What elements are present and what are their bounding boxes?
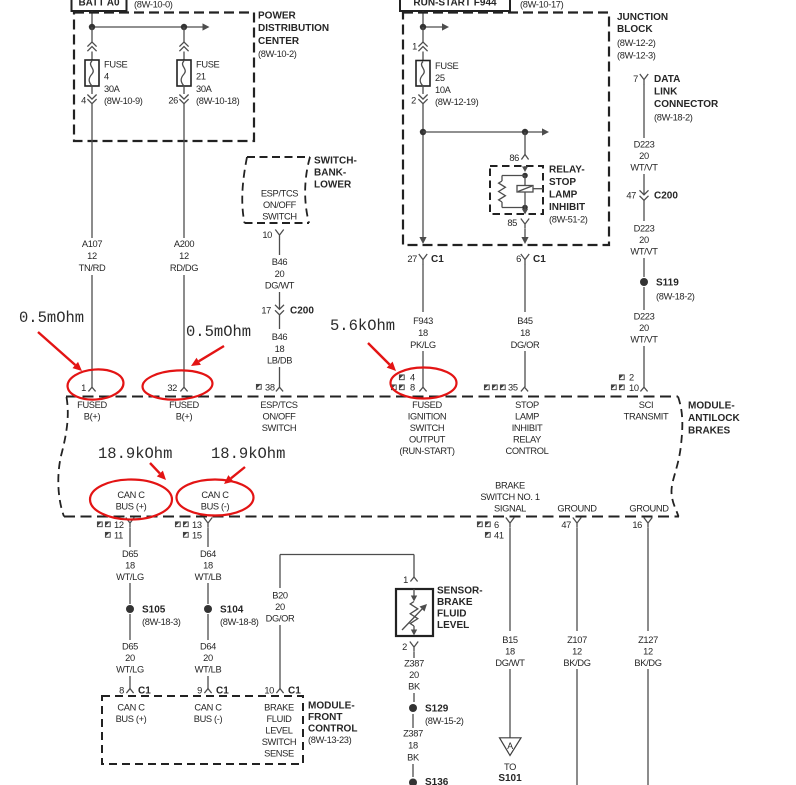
- svg-text:PK/LG: PK/LG: [410, 340, 436, 350]
- svg-text:GROUND: GROUND: [557, 504, 597, 514]
- svg-text:2: 2: [411, 96, 416, 106]
- svg-text:16: 16: [632, 520, 642, 530]
- svg-text:FUSE: FUSE: [196, 60, 220, 70]
- svg-text:6: 6: [494, 520, 499, 530]
- svg-text:C1: C1: [533, 254, 546, 265]
- svg-text:2: 2: [402, 642, 407, 652]
- svg-text:(8W-12-19): (8W-12-19): [435, 97, 479, 107]
- svg-text:7: 7: [633, 74, 638, 84]
- svg-text:35: 35: [508, 383, 518, 393]
- svg-text:17: 17: [261, 306, 271, 316]
- svg-text:47: 47: [626, 191, 636, 201]
- svg-text:6: 6: [516, 254, 521, 264]
- svg-text:WT/LB: WT/LB: [195, 572, 222, 582]
- svg-text:5.6kOhm: 5.6kOhm: [330, 317, 395, 335]
- svg-text:41: 41: [494, 531, 504, 541]
- svg-text:FLUID: FLUID: [266, 714, 292, 724]
- svg-text:D65: D65: [122, 642, 138, 652]
- svg-text:CONNECTOR: CONNECTOR: [654, 99, 719, 110]
- svg-text:WT/VT: WT/VT: [630, 335, 658, 345]
- svg-text:SENSE: SENSE: [264, 749, 294, 759]
- svg-text:12: 12: [179, 251, 189, 261]
- svg-text:(8W-12-3): (8W-12-3): [617, 50, 656, 60]
- svg-text:10: 10: [264, 686, 274, 696]
- svg-text:F943: F943: [413, 316, 433, 326]
- svg-text:C1: C1: [138, 686, 151, 697]
- svg-text:Z387: Z387: [404, 659, 424, 669]
- svg-text:BLOCK: BLOCK: [617, 24, 653, 35]
- svg-text:SWITCH-: SWITCH-: [314, 156, 357, 167]
- svg-text:Z387: Z387: [403, 729, 423, 739]
- svg-text:(8W-10-18): (8W-10-18): [196, 96, 240, 106]
- svg-text:SWITCH: SWITCH: [262, 737, 297, 747]
- svg-text:D64: D64: [200, 549, 216, 559]
- svg-text:ANTILOCK: ANTILOCK: [688, 413, 740, 424]
- svg-text:(8W-18-3): (8W-18-3): [142, 617, 181, 627]
- svg-text:30A: 30A: [104, 84, 121, 94]
- svg-text:12: 12: [643, 647, 653, 657]
- svg-text:15: 15: [192, 531, 202, 541]
- svg-text:12: 12: [87, 251, 97, 261]
- svg-text:11: 11: [114, 531, 123, 541]
- svg-text:CAN C: CAN C: [117, 703, 145, 713]
- svg-text:D223: D223: [634, 224, 655, 234]
- svg-text:BRAKES: BRAKES: [688, 425, 731, 436]
- svg-text:TN/RD: TN/RD: [79, 263, 106, 273]
- svg-text:(8W-18-2): (8W-18-2): [654, 113, 693, 123]
- svg-text:SWITCH: SWITCH: [410, 423, 445, 433]
- svg-text:FLUID: FLUID: [437, 609, 466, 620]
- svg-text:S105: S105: [142, 605, 166, 616]
- svg-text:C200: C200: [290, 306, 314, 317]
- svg-text:(8W-10-0): (8W-10-0): [134, 0, 173, 10]
- svg-text:ON/OFF: ON/OFF: [262, 412, 296, 422]
- svg-text:CAN C: CAN C: [194, 703, 222, 713]
- svg-text:BK: BK: [408, 682, 421, 692]
- svg-text:32: 32: [167, 383, 177, 393]
- svg-text:TO: TO: [504, 762, 516, 772]
- svg-text:SENSOR-: SENSOR-: [437, 586, 483, 597]
- svg-text:18: 18: [418, 328, 428, 338]
- svg-text:LAMP: LAMP: [515, 412, 539, 422]
- svg-text:C1: C1: [288, 686, 301, 697]
- svg-text:WT/LG: WT/LG: [116, 572, 144, 582]
- svg-text:BRAKE: BRAKE: [495, 481, 525, 491]
- svg-text:D223: D223: [634, 312, 655, 322]
- svg-text:CAN C: CAN C: [117, 490, 145, 500]
- svg-text:(8W-15-2): (8W-15-2): [425, 716, 464, 726]
- svg-text:SWITCH: SWITCH: [262, 423, 297, 433]
- svg-text:SWITCH: SWITCH: [262, 212, 297, 222]
- svg-text:SCI: SCI: [639, 400, 653, 410]
- svg-text:B46: B46: [272, 257, 288, 267]
- svg-text:20: 20: [639, 323, 649, 333]
- svg-text:86: 86: [509, 153, 519, 163]
- svg-text:47: 47: [561, 520, 571, 530]
- svg-text:20: 20: [125, 653, 135, 663]
- svg-text:(8W-13-23): (8W-13-23): [308, 735, 352, 745]
- svg-text:STOP: STOP: [515, 400, 539, 410]
- svg-text:JUNCTION: JUNCTION: [617, 12, 668, 23]
- svg-text:4: 4: [104, 72, 109, 82]
- svg-text:13: 13: [192, 520, 202, 530]
- svg-text:TRANSMIT: TRANSMIT: [624, 412, 669, 422]
- svg-text:21: 21: [196, 72, 206, 82]
- svg-text:18.9kOhm: 18.9kOhm: [211, 445, 285, 463]
- svg-text:DG/WT: DG/WT: [495, 658, 525, 668]
- svg-text:ESP/TCS: ESP/TCS: [261, 189, 298, 199]
- svg-text:4: 4: [81, 96, 86, 106]
- svg-text:18: 18: [203, 561, 213, 571]
- svg-text:BK/DG: BK/DG: [634, 658, 661, 668]
- svg-text:B45: B45: [517, 316, 533, 326]
- svg-text:1: 1: [403, 575, 408, 585]
- svg-text:SIGNAL: SIGNAL: [494, 504, 526, 514]
- svg-text:BRAKE: BRAKE: [264, 703, 294, 713]
- svg-text:RD/DG: RD/DG: [170, 263, 198, 273]
- svg-text:BUS (+): BUS (+): [116, 502, 147, 512]
- svg-text:26: 26: [168, 96, 178, 106]
- svg-text:(8W-18-2): (8W-18-2): [656, 292, 695, 302]
- svg-text:D223: D223: [634, 140, 655, 150]
- svg-text:FUSED: FUSED: [77, 400, 107, 410]
- svg-text:CONTROL: CONTROL: [308, 724, 357, 735]
- svg-text:S136: S136: [425, 777, 449, 785]
- svg-text:1: 1: [81, 383, 86, 393]
- svg-text:20: 20: [639, 235, 649, 245]
- svg-text:SWITCH NO. 1: SWITCH NO. 1: [480, 492, 540, 502]
- svg-text:S104: S104: [220, 605, 244, 616]
- svg-text:A107: A107: [82, 239, 102, 249]
- svg-text:Z107: Z107: [567, 635, 587, 645]
- svg-text:BATT A0: BATT A0: [78, 0, 120, 9]
- svg-text:CAN C: CAN C: [201, 490, 229, 500]
- svg-text:27: 27: [407, 254, 417, 264]
- svg-text:BK: BK: [407, 752, 420, 762]
- svg-text:18: 18: [520, 328, 530, 338]
- svg-text:B(+): B(+): [176, 412, 193, 422]
- svg-text:(8W-12-2): (8W-12-2): [617, 38, 656, 48]
- svg-text:DG/OR: DG/OR: [511, 340, 540, 350]
- svg-text:S119: S119: [656, 278, 679, 289]
- svg-text:(8W-10-2): (8W-10-2): [258, 49, 297, 59]
- svg-text:FUSE: FUSE: [104, 60, 128, 70]
- svg-text:B15: B15: [502, 635, 518, 645]
- svg-text:LB/DB: LB/DB: [267, 356, 292, 366]
- svg-text:RELAY: RELAY: [513, 435, 541, 445]
- svg-text:30A: 30A: [196, 84, 213, 94]
- svg-text:LEVEL: LEVEL: [265, 726, 292, 736]
- svg-text:D65: D65: [122, 549, 138, 559]
- svg-text:STOP: STOP: [549, 177, 576, 188]
- svg-text:DISTRIBUTION: DISTRIBUTION: [258, 23, 329, 34]
- svg-text:Z127: Z127: [638, 635, 658, 645]
- svg-text:(8W-51-2): (8W-51-2): [549, 215, 588, 225]
- svg-text:IGNITION: IGNITION: [408, 412, 447, 422]
- svg-text:2: 2: [629, 373, 634, 383]
- svg-text:B20: B20: [272, 591, 288, 601]
- svg-text:LEVEL: LEVEL: [437, 620, 469, 631]
- svg-text:C1: C1: [216, 686, 229, 697]
- svg-text:S101: S101: [498, 773, 522, 784]
- svg-text:B46: B46: [272, 332, 288, 342]
- svg-text:C200: C200: [654, 191, 678, 202]
- svg-text:BANK-: BANK-: [314, 168, 346, 179]
- svg-text:FRONT: FRONT: [308, 712, 342, 723]
- svg-text:LINK: LINK: [654, 86, 678, 97]
- svg-text:10: 10: [629, 383, 639, 393]
- svg-text:BUS (+): BUS (+): [116, 714, 147, 724]
- svg-text:(8W-10-17): (8W-10-17): [520, 0, 564, 10]
- svg-text:25: 25: [435, 73, 445, 83]
- svg-text:10A: 10A: [435, 85, 452, 95]
- svg-text:DATA: DATA: [654, 74, 680, 85]
- svg-text:18: 18: [275, 344, 285, 354]
- svg-text:A200: A200: [174, 239, 194, 249]
- svg-text:C1: C1: [431, 254, 444, 265]
- svg-text:85: 85: [507, 218, 517, 228]
- svg-text:18: 18: [408, 740, 418, 750]
- svg-text:FUSED: FUSED: [412, 400, 442, 410]
- svg-text:0.5mOhm: 0.5mOhm: [186, 323, 251, 341]
- svg-text:20: 20: [203, 653, 213, 663]
- svg-text:8: 8: [410, 383, 415, 393]
- svg-text:BRAKE: BRAKE: [437, 597, 473, 608]
- svg-text:WT/LG: WT/LG: [116, 665, 144, 675]
- svg-text:20: 20: [409, 670, 419, 680]
- svg-text:ON/OFF: ON/OFF: [263, 200, 297, 210]
- svg-text:FUSE: FUSE: [435, 61, 459, 71]
- svg-text:20: 20: [639, 151, 649, 161]
- svg-text:INHIBIT: INHIBIT: [512, 423, 543, 433]
- svg-text:GROUND: GROUND: [629, 504, 669, 514]
- svg-text:A: A: [507, 741, 513, 751]
- svg-text:LOWER: LOWER: [314, 180, 352, 191]
- svg-text:OUTPUT: OUTPUT: [409, 435, 446, 445]
- svg-text:WT/VT: WT/VT: [630, 247, 658, 257]
- svg-text:CENTER: CENTER: [258, 36, 300, 47]
- svg-text:12: 12: [572, 647, 582, 657]
- svg-text:0.5mOhm: 0.5mOhm: [19, 309, 84, 327]
- svg-text:18: 18: [505, 647, 515, 657]
- svg-text:1: 1: [412, 42, 417, 52]
- svg-text:RELAY-: RELAY-: [549, 165, 585, 176]
- svg-text:FUSED: FUSED: [169, 400, 199, 410]
- svg-text:DG/OR: DG/OR: [266, 614, 295, 624]
- svg-text:BK/DG: BK/DG: [563, 658, 590, 668]
- svg-text:BUS (-): BUS (-): [201, 502, 230, 512]
- svg-text:RUN-START F944: RUN-START F944: [413, 0, 497, 9]
- svg-text:MODULE-: MODULE-: [688, 401, 735, 412]
- svg-text:20: 20: [275, 269, 285, 279]
- svg-text:CONTROL: CONTROL: [505, 446, 548, 456]
- svg-text:20: 20: [275, 602, 285, 612]
- svg-text:POWER: POWER: [258, 11, 297, 22]
- svg-text:MODULE-: MODULE-: [308, 701, 355, 712]
- svg-text:B(+): B(+): [84, 412, 101, 422]
- svg-text:S129: S129: [425, 704, 449, 715]
- svg-text:38: 38: [265, 383, 275, 393]
- svg-text:10: 10: [262, 230, 272, 240]
- svg-text:18: 18: [125, 561, 135, 571]
- svg-text:(8W-18-8): (8W-18-8): [220, 617, 259, 627]
- svg-text:18.9kOhm: 18.9kOhm: [98, 445, 172, 463]
- svg-text:(RUN-START): (RUN-START): [399, 446, 454, 456]
- svg-text:DG/WT: DG/WT: [265, 281, 295, 291]
- svg-text:D64: D64: [200, 642, 216, 652]
- svg-text:9: 9: [197, 686, 202, 696]
- svg-text:WT/VT: WT/VT: [630, 163, 658, 173]
- svg-text:WT/LB: WT/LB: [195, 665, 222, 675]
- svg-text:INHIBIT: INHIBIT: [549, 202, 585, 213]
- svg-text:LAMP: LAMP: [549, 190, 578, 201]
- svg-text:12: 12: [114, 520, 124, 530]
- svg-text:4: 4: [410, 373, 415, 383]
- svg-text:(8W-10-9): (8W-10-9): [104, 96, 143, 106]
- svg-text:BUS (-): BUS (-): [194, 714, 223, 724]
- svg-text:ESP/TCS: ESP/TCS: [260, 400, 297, 410]
- svg-text:8: 8: [119, 686, 124, 696]
